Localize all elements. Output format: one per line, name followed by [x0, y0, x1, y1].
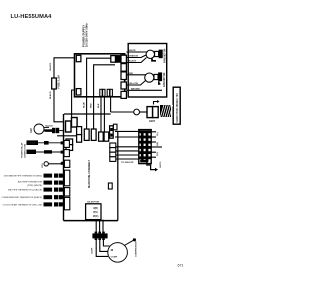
svg-text:CN-MOTOR: CN-MOTOR	[87, 202, 99, 204]
valve coil (hatched)	[160, 105, 173, 117]
plug row B	[36, 151, 64, 153]
svg-text:CONDENSER MID THERMISTOR (BLAC: CONDENSER MID THERMISTOR (BLACK)	[1, 196, 42, 199]
svg-text:1N 220-240V 50Hz: 1N 220-240V 50Hz	[85, 23, 89, 47]
wire motor1 a	[126, 51, 146, 53]
wire motor2 a	[126, 74, 145, 76]
svg-text:W(C): W(C)	[93, 216, 99, 218]
wire valve feed	[111, 111, 134, 113]
svg-text:POWER RELAY: POWER RELAY	[21, 142, 24, 158]
sensor circle row C	[44, 162, 48, 166]
valve motor circle	[134, 109, 140, 115]
connector strip right edge of PWB	[121, 55, 126, 98]
component cluster: relay K3 (two cells)	[77, 127, 82, 135]
svg-text:BLACK: BLACK	[49, 62, 52, 70]
svg-text:CONNECTION: CONNECTION	[24, 144, 26, 158]
wire motor1 c	[126, 58, 146, 63]
svg-text:2(N): 2(N)	[157, 142, 159, 146]
wire power feed to PWB	[54, 58, 75, 78]
thermistor row G	[1, 195, 64, 199]
component fuse row: rect 3	[99, 132, 104, 141]
wires 4pin to terminal	[116, 146, 139, 148]
svg-text:BLACK: BLACK	[129, 60, 137, 63]
outer box left edge	[63, 114, 65, 221]
svg-text:CAPACITOR 450VAC 70C: CAPACITOR 450VAC 70C	[176, 93, 179, 123]
svg-text:YELLOW: YELLOW	[129, 83, 139, 85]
outer control area: top edge	[64, 113, 111, 115]
svg-text:OUTDOOR AIR THERMISTOR (YELLOW: OUTDOOR AIR THERMISTOR (YELLOW)	[3, 203, 43, 206]
svg-text:FAN MOTOR: FAN MOTOR	[163, 72, 166, 87]
connector pair bottom edge b	[107, 89, 109, 96]
fan motor M2	[145, 73, 154, 82]
svg-text:RED: RED	[91, 103, 93, 108]
valve connector	[147, 107, 153, 118]
svg-text:OLP: OLP	[30, 128, 33, 133]
interior wire 1	[87, 58, 111, 97]
outer box bottom edge	[64, 220, 118, 222]
thermistor row E	[18, 181, 64, 188]
capacitor C2	[154, 74, 158, 79]
OLP plug	[45, 129, 53, 132]
svg-text:BROWN: BROWN	[131, 88, 140, 90]
wire PWB bottom drop 3	[100, 97, 102, 133]
outer box right edge	[117, 131, 119, 220]
svg-text:LU-HE55UMA4: LU-HE55UMA4	[11, 14, 53, 20]
svg-text:COMP: COMP	[28, 141, 36, 145]
wire valve to connector	[140, 111, 148, 113]
fuse F1	[52, 78, 57, 89]
component cluster: relay K2	[72, 118, 78, 128]
main PWB box U1	[75, 54, 125, 97]
wire PWB bottom drop 1	[86, 97, 88, 129]
connector CN-L (left top of PWB)	[76, 55, 81, 61]
component fuse row: rect 4	[104, 132, 109, 141]
compressor wires down	[95, 220, 97, 234]
svg-text:COMPRESSOR: COMPRESSOR	[136, 241, 138, 257]
comp label wire	[124, 240, 133, 245]
wire PWB bottom drop 2	[93, 97, 95, 129]
svg-text:WHITE: WHITE	[129, 50, 137, 52]
svg-text:(PIPE) (WHITE): (PIPE) (WHITE)	[27, 185, 42, 187]
small part right	[108, 183, 112, 189]
OLP circle	[34, 124, 44, 134]
wire PWB bottom drop 5	[110, 97, 112, 113]
wires bar to compressor	[96, 238, 108, 256]
capacitor C1	[155, 51, 159, 56]
label power supply (vertical 2-line text)	[81, 23, 88, 47]
svg-text:4WAY: 4WAY	[149, 120, 156, 123]
interior wire 2	[94, 65, 115, 97]
svg-text:TO INDOOR: TO INDOOR	[121, 162, 134, 164]
connector pair bottom edge a	[100, 89, 102, 96]
svg-text:3(C): 3(C)	[157, 152, 159, 156]
svg-text:COIL: COIL	[42, 162, 44, 168]
arrow over valve	[154, 102, 158, 105]
fan motor M1	[146, 50, 154, 58]
wire jog left edge	[72, 90, 75, 118]
fan unit box	[128, 44, 167, 98]
connectors on outer left edge	[64, 140, 70, 209]
terminal block TB	[139, 130, 151, 164]
svg-text:MAIN PWB ASSEMBLY: MAIN PWB ASSEMBLY	[87, 160, 91, 188]
svg-text:GN/YL: GN/YL	[160, 161, 162, 168]
inline connector bar	[92, 233, 107, 238]
svg-text:AIR TEMP THERMISTOR: AIR TEMP THERMISTOR	[18, 181, 42, 184]
compressor motor	[108, 243, 128, 263]
svg-text:FUSE 3.15A: FUSE 3.15A	[58, 75, 61, 89]
wire motor1 b	[126, 55, 147, 58]
svg-text:BLUE: BLUE	[84, 102, 86, 108]
component fuse row: rect 1	[84, 129, 89, 140]
wire PWB bottom drop 4	[103, 97, 105, 133]
connector left bottom of PWB	[76, 89, 81, 95]
wire labels motor1	[129, 50, 139, 63]
thermistor row F	[8, 188, 64, 192]
wire motor2 common	[126, 89, 162, 91]
svg-text:ORANGE: ORANGE	[129, 55, 139, 58]
thermistor row H	[3, 202, 65, 206]
svg-text:DISCHARGE PIPE THERMISTOR (RED: DISCHARGE PIPE THERMISTOR (RED)	[4, 175, 43, 178]
connector CN-V top edge black	[116, 56, 120, 63]
svg-text:FAN MOTOR: FAN MOTOR	[164, 48, 167, 63]
connector 4pin mid	[110, 143, 116, 161]
svg-text:BLK: BLK	[98, 103, 100, 108]
svg-text:BLACK: BLACK	[46, 125, 54, 128]
wire fuse to box	[54, 89, 64, 122]
component cluster: relay K4 (two cells)	[66, 139, 73, 145]
svg-text:1(L): 1(L)	[157, 132, 159, 136]
component cluster at outer box top-left: relay K1	[66, 121, 72, 132]
compressor terminal block	[86, 204, 101, 220]
ground wire hook	[147, 162, 155, 170]
plug row A	[38, 142, 64, 144]
relay block	[110, 126, 114, 138]
terminal right stub wires	[151, 131, 156, 133]
wire motor2 b	[126, 81, 145, 86]
svg-text:COMP: COMP	[92, 247, 94, 254]
legend box (vertical note)	[173, 87, 180, 124]
component fuse row: rect 2	[91, 129, 96, 140]
svg-text:MID PIPE THERMISTOR (2) (BLUE): MID PIPE THERMISTOR (2) (BLUE)	[8, 190, 42, 192]
svg-text:671: 671	[178, 263, 184, 267]
svg-text:V(S): V(S)	[93, 212, 98, 214]
connector CN-U top edge white	[111, 56, 116, 63]
wire cluster crossing	[57, 135, 77, 137]
svg-text:BLACK: BLACK	[49, 91, 52, 99]
svg-text:RED: RED	[129, 73, 134, 75]
thermistor row D	[4, 174, 65, 178]
svg-text:U(R): U(R)	[93, 208, 98, 210]
wire pair to terminal	[115, 130, 139, 132]
OLP wires	[44, 126, 50, 128]
svg-text:COMP: COMP	[111, 256, 118, 258]
